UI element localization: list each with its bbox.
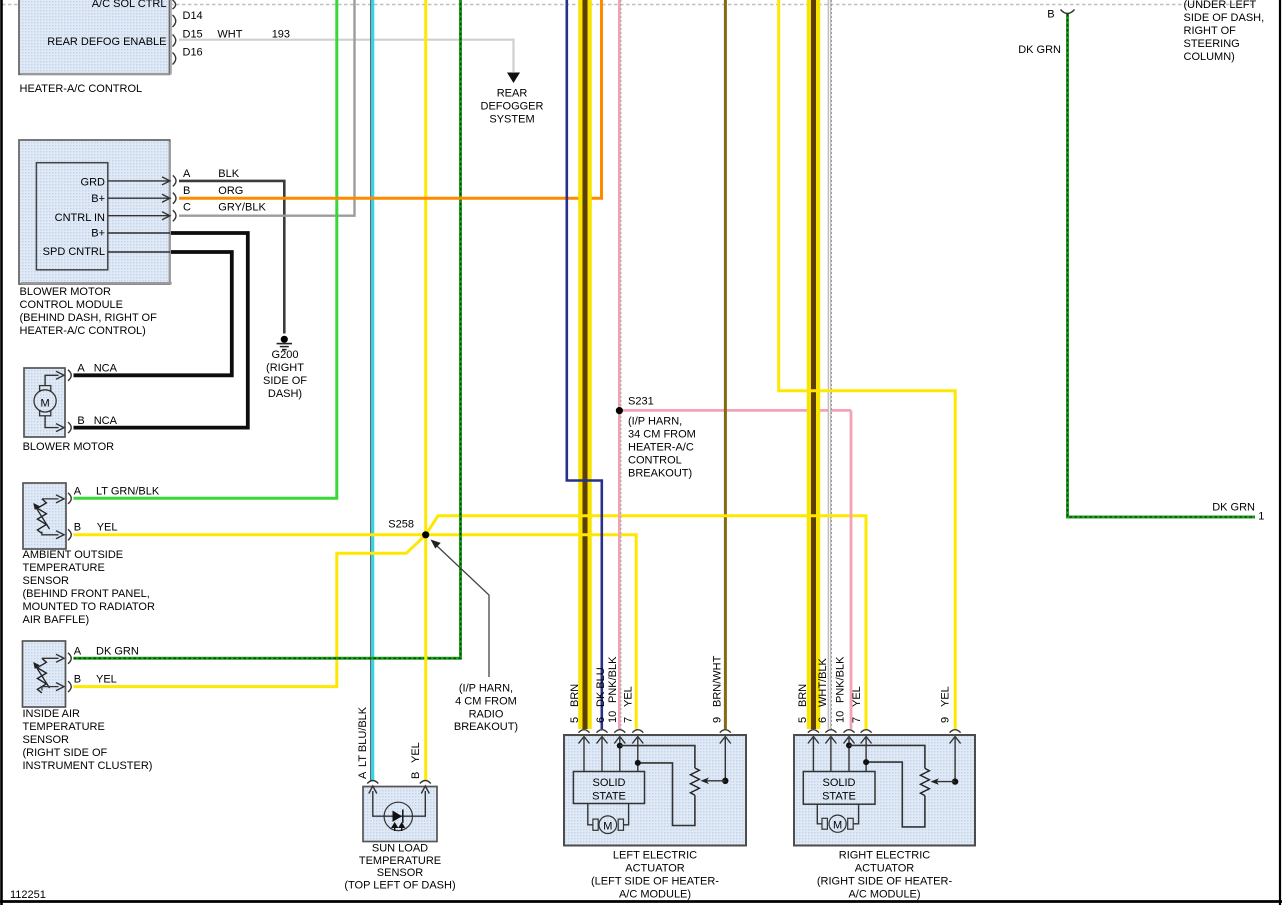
potentiometer resistor <box>690 768 699 795</box>
svg-text:SIDE OF DASH,: SIDE OF DASH, <box>1184 12 1265 24</box>
lead to pin B <box>42 687 59 691</box>
pin 6 arrow <box>601 738 603 772</box>
svg-text:DK GRN: DK GRN <box>1018 44 1061 56</box>
wire A/C SOL CTRL WHT (top, runs to right connector B) <box>2 4 1256 6</box>
svg-text:YEL: YEL <box>851 686 863 707</box>
svg-text:SENSOR: SENSOR <box>23 734 70 746</box>
svg-text:6: 6 <box>817 717 829 723</box>
thermistor symbol <box>37 658 46 693</box>
svg-text:9: 9 <box>940 717 952 723</box>
svg-text:(RIGHT SIDE OF HEATER-: (RIGHT SIDE OF HEATER- <box>817 876 953 888</box>
wire B+ thick black from module to blower motor pin B <box>74 233 248 428</box>
left actuator pin 5 arc <box>579 730 590 733</box>
svg-text:NCA: NCA <box>94 415 118 427</box>
svg-text:SOLID: SOLID <box>822 777 855 789</box>
svg-text:GRY/BLK: GRY/BLK <box>218 202 266 214</box>
svg-text:DEFOGGER: DEFOGGER <box>481 101 544 113</box>
svg-text:AMBIENT OUTSIDE: AMBIENT OUTSIDE <box>23 549 124 561</box>
pin D16 connector arc <box>173 53 176 65</box>
svg-text:LT BLU/BLK: LT BLU/BLK <box>357 706 369 767</box>
svg-text:A: A <box>74 486 82 498</box>
solid state block <box>573 772 644 804</box>
svg-text:A/C MODULE): A/C MODULE) <box>848 889 920 901</box>
svg-text:DK BLU: DK BLU <box>595 667 607 707</box>
svg-text:SENSOR: SENSOR <box>377 867 424 879</box>
inner solid-state block <box>36 163 107 270</box>
wire BLK from blower module pin A to G200 <box>179 181 284 334</box>
svg-text:STEERING: STEERING <box>1184 38 1240 50</box>
svg-text:HEATER-A/C CONTROL: HEATER-A/C CONTROL <box>20 83 143 95</box>
svg-text:BLOWER MOTOR: BLOWER MOTOR <box>20 286 112 298</box>
right electric actuator <box>794 735 975 846</box>
svg-text:COLUMN): COLUMN) <box>1184 51 1235 63</box>
wire WHT 193 from D15 to rear defogger system <box>179 40 514 72</box>
wire DK GRN right side from connector B down then right <box>1068 14 1256 517</box>
ambient pin A arc <box>68 493 71 504</box>
wire DK GRN from inside air sensor pin A, up at x=460.5 to top <box>74 0 461 658</box>
svg-text:SENSOR: SENSOR <box>23 575 70 587</box>
left electric actuator <box>564 735 746 846</box>
right actuator pin 6 arc <box>825 730 836 733</box>
junction on pin 7 <box>863 759 869 765</box>
svg-text:A/C SOL CTRL: A/C SOL CTRL <box>92 0 167 10</box>
splice S258 <box>422 531 429 538</box>
motor leads <box>817 804 822 824</box>
sun pin B arc <box>420 781 431 784</box>
left actuator pin 7 arc <box>632 730 643 733</box>
wire SPD CNTRL thick black from module to blower motor pin A <box>74 252 232 375</box>
pin 6 arrow <box>830 738 832 772</box>
svg-text:(LEFT SIDE OF HEATER-: (LEFT SIDE OF HEATER- <box>591 876 719 888</box>
svg-text:(BEHIND FRONT PANEL,: (BEHIND FRONT PANEL, <box>23 588 150 600</box>
svg-text:WHT: WHT <box>217 29 242 41</box>
motor M symbol <box>40 386 51 391</box>
pin 5 arrow <box>583 738 585 772</box>
svg-text:BREAKOUT): BREAKOUT) <box>628 468 692 480</box>
svg-text:REAR DEFOG ENABLE: REAR DEFOG ENABLE <box>47 36 166 48</box>
svg-text:YEL: YEL <box>410 742 422 763</box>
arrow B+ to pin B <box>108 197 169 199</box>
left actuator pin 6 arc <box>597 730 608 733</box>
svg-text:YEL: YEL <box>623 686 635 707</box>
svg-text:(UNDER LEFT: (UNDER LEFT <box>1184 0 1257 11</box>
motor leads <box>588 804 593 825</box>
right actuator pin 5 arc <box>808 730 819 733</box>
svg-text:DK GRN: DK GRN <box>96 646 139 658</box>
photodiode <box>384 802 412 830</box>
wire BRN (over ORG crossing) <box>578 191 592 206</box>
svg-text:112251: 112251 <box>10 889 46 901</box>
svg-text:M: M <box>41 398 50 410</box>
ambient pin B arc <box>68 529 71 540</box>
svg-text:CNTRL IN: CNTRL IN <box>55 212 105 224</box>
leader arrow from note to S258 <box>435 544 490 677</box>
wiper arrow from pin 9 <box>952 778 958 784</box>
pin 7 arrow <box>865 738 867 772</box>
svg-text:10: 10 <box>607 711 619 723</box>
wire GRY/BLK from blower module pin C, up at x=354.5 to top <box>179 0 355 216</box>
page frame <box>0 0 3 905</box>
svg-text:STATE: STATE <box>592 791 626 803</box>
wire YEL ambient sensor pin B through S258 to left actuator pin 7 <box>74 535 637 729</box>
svg-text:BRN: BRN <box>797 684 809 707</box>
svg-text:CONTROL MODULE: CONTROL MODULE <box>20 299 124 311</box>
svg-text:INSTRUMENT CLUSTER): INSTRUMENT CLUSTER) <box>23 760 153 772</box>
svg-text:RIGHT OF: RIGHT OF <box>1184 25 1237 37</box>
svg-text:BREAKOUT): BREAKOUT) <box>454 721 518 733</box>
svg-text:B: B <box>1047 9 1054 21</box>
potentiometer top lead <box>849 745 925 768</box>
svg-text:HEATER-A/C: HEATER-A/C <box>628 442 694 454</box>
svg-text:A: A <box>183 168 191 180</box>
svg-text:A: A <box>77 363 85 375</box>
svg-text:193: 193 <box>272 29 290 41</box>
svg-text:YEL: YEL <box>96 674 117 686</box>
thermistor symbol <box>37 499 46 534</box>
svg-text:SIDE OF: SIDE OF <box>263 375 307 387</box>
svg-text:B: B <box>74 522 81 534</box>
svg-text:BLOWER MOTOR: BLOWER MOTOR <box>23 441 115 453</box>
svg-text:LT GRN/BLK: LT GRN/BLK <box>96 486 160 498</box>
solid state block <box>803 772 875 805</box>
svg-text:DASH): DASH) <box>268 388 302 400</box>
wire BRN/WHT from top to left actuator pin 9 <box>724 0 727 729</box>
svg-text:SOLID: SOLID <box>592 777 625 789</box>
svg-text:WHT/BLK: WHT/BLK <box>817 657 829 707</box>
right actuator pin 9 arc <box>950 730 961 733</box>
potentiometer bottom lead to pin 7 <box>866 762 925 827</box>
svg-text:SPD CNTRL: SPD CNTRL <box>43 246 105 258</box>
pin B connector arc <box>173 193 176 204</box>
svg-text:TEMPERATURE: TEMPERATURE <box>359 855 441 867</box>
svg-text:MOUNTED TO RADIATOR: MOUNTED TO RADIATOR <box>23 601 155 613</box>
pin 10 arrow <box>848 738 850 772</box>
svg-text:CONTROL: CONTROL <box>628 455 682 467</box>
svg-text:5: 5 <box>569 717 581 723</box>
pin 7 arrow <box>637 738 639 772</box>
svg-text:(RIGHT SIDE OF: (RIGHT SIDE OF <box>23 747 108 759</box>
potentiometer top lead <box>620 746 695 768</box>
svg-text:LEFT ELECTRIC: LEFT ELECTRIC <box>613 850 697 862</box>
wire PNK/BLK branch horizontal from S231 toward right actuator <box>619 409 851 412</box>
wire PNK/BLK branch vertical to right actuator pin 10 <box>850 410 853 729</box>
svg-text:(TOP LEFT OF DASH): (TOP LEFT OF DASH) <box>344 879 455 891</box>
svg-text:INSIDE AIR: INSIDE AIR <box>23 708 81 720</box>
junction on pin 10 <box>846 742 852 748</box>
svg-text:(RIGHT: (RIGHT <box>266 362 304 374</box>
svg-text:G200: G200 <box>272 349 299 361</box>
potentiometer resistor <box>920 768 929 795</box>
svg-text:SUN LOAD: SUN LOAD <box>372 843 428 855</box>
wire YEL sun load sensor pin B vertical from top through S258 <box>424 0 427 782</box>
rear defogger system arrow <box>507 73 520 84</box>
svg-text:GRD: GRD <box>81 177 106 189</box>
lead to pin A <box>42 657 59 659</box>
svg-text:DK GRN: DK GRN <box>1212 502 1255 514</box>
junction on pin 7 <box>635 760 641 766</box>
pin D13 connector arc <box>173 0 176 9</box>
heater-A/C control (box, cut off at top) <box>19 0 172 75</box>
arrow GRD to pin A <box>108 180 169 182</box>
svg-text:B: B <box>410 772 422 779</box>
motor M symbol <box>822 818 827 829</box>
junction on pin 10 <box>617 743 623 749</box>
motor lead to pin A <box>45 375 58 385</box>
svg-text:ORG: ORG <box>218 185 243 197</box>
pin D14 connector arc <box>173 15 176 27</box>
svg-text:D15: D15 <box>183 29 203 41</box>
motor M symbol <box>593 819 598 830</box>
sun load temperature sensor <box>363 786 437 842</box>
pin C connector arc <box>173 210 176 221</box>
wire BRN thick from top to left actuator pin 5 <box>578 0 592 729</box>
svg-text:SYSTEM: SYSTEM <box>489 114 534 126</box>
wire YEL from S258 to right actuator pin 7 <box>426 516 866 729</box>
svg-text:C: C <box>183 202 191 214</box>
wire LT BLU/BLK from top to sun load sensor pin A <box>370 0 372 782</box>
wire BRN thick from top to right actuator pin 5 <box>807 0 821 729</box>
svg-text:D16: D16 <box>183 47 203 59</box>
svg-text:ACTUATOR: ACTUATOR <box>855 863 915 875</box>
wire B+ lead inside module <box>108 232 170 234</box>
svg-text:PNK/BLK: PNK/BLK <box>607 656 619 703</box>
svg-text:A: A <box>357 771 369 779</box>
inside air pin A arc <box>68 653 71 664</box>
svg-text:HEATER-A/C CONTROL): HEATER-A/C CONTROL) <box>20 325 146 337</box>
svg-text:9: 9 <box>712 717 724 723</box>
sun pin A arc <box>367 781 378 784</box>
svg-text:TEMPERATURE: TEMPERATURE <box>23 562 105 574</box>
left actuator pin 9 arc <box>720 730 731 733</box>
lead to pin B <box>42 532 59 535</box>
svg-text:D14: D14 <box>183 10 203 22</box>
left actuator pin 10 arc <box>614 730 625 733</box>
ground G200 <box>263 336 307 400</box>
motor lead to pin B <box>45 416 58 428</box>
svg-text:1: 1 <box>1258 511 1264 523</box>
svg-text:AIR BAFFLE): AIR BAFFLE) <box>23 614 90 626</box>
right actuator pin 10 arc <box>844 730 855 733</box>
svg-text:M: M <box>603 820 612 832</box>
wire SPD CNTRL lead inside module <box>108 251 170 253</box>
svg-text:B+: B+ <box>91 228 105 240</box>
ambient outside temperature sensor <box>23 483 66 549</box>
wire YEL from top to right actuator pin 9 <box>779 0 956 729</box>
svg-text:YEL: YEL <box>940 686 952 707</box>
svg-text:7: 7 <box>851 717 863 723</box>
svg-text:B: B <box>183 185 190 197</box>
pin D15 connector arc <box>173 35 176 47</box>
lead to pin A <box>42 498 59 500</box>
wire PNK/BLK from top through S231 to left actuator pin 10 <box>618 0 621 729</box>
svg-text:TEMPERATURE: TEMPERATURE <box>23 721 105 733</box>
svg-text:(I/P HARN,: (I/P HARN, <box>628 416 682 428</box>
svg-text:34 CM FROM: 34 CM FROM <box>628 429 696 441</box>
svg-text:NCA: NCA <box>94 363 118 375</box>
svg-text:5: 5 <box>797 717 809 723</box>
svg-text:6: 6 <box>595 717 607 723</box>
svg-text:B: B <box>77 415 84 427</box>
svg-text:BRN: BRN <box>569 684 581 707</box>
pin A connector arc <box>173 175 176 186</box>
inside air pin B arc <box>68 681 71 692</box>
blower motor control module <box>19 140 172 284</box>
blower motor pin A arc <box>68 370 71 381</box>
svg-text:YEL: YEL <box>97 522 118 534</box>
svg-text:REAR: REAR <box>497 88 528 100</box>
potentiometer bottom lead to pin 7 <box>638 763 695 826</box>
svg-text:B: B <box>74 674 81 686</box>
arrow CNTRL IN to pin C <box>108 215 169 217</box>
svg-text:STATE: STATE <box>822 791 856 803</box>
svg-text:10: 10 <box>835 711 847 723</box>
svg-text:A/C MODULE): A/C MODULE) <box>619 889 691 901</box>
svg-text:(I/P HARN,: (I/P HARN, <box>459 683 513 695</box>
wiper arrow from pin 9 <box>722 778 728 784</box>
pin 5 arrow <box>812 738 814 772</box>
svg-text:RIGHT ELECTRIC: RIGHT ELECTRIC <box>839 850 931 862</box>
svg-text:RADIO: RADIO <box>469 709 504 721</box>
wire WHT/BLK from top to right actuator pin 6 <box>828 0 832 729</box>
pin 9 arrow <box>954 738 956 782</box>
pin 10 arrow <box>619 738 621 772</box>
blower motor pin B arc <box>68 422 71 433</box>
svg-text:B+: B+ <box>91 193 105 205</box>
splice S231 <box>616 407 623 414</box>
svg-text:A: A <box>74 646 82 658</box>
wire LT GRN/BLK from ambient sensor pin A, up at x=336.8 to top <box>74 0 337 498</box>
svg-text:4 CM FROM: 4 CM FROM <box>455 696 517 708</box>
svg-text:M: M <box>833 819 842 831</box>
svg-text:7: 7 <box>623 717 635 723</box>
svg-text:S258: S258 <box>388 519 414 531</box>
wire DK BLU from top to left actuator pin 6 <box>567 0 602 729</box>
svg-text:BLK: BLK <box>218 168 239 180</box>
svg-text:ACTUATOR: ACTUATOR <box>625 863 685 875</box>
pin 9 arrow <box>724 738 726 781</box>
svg-text:(BEHIND DASH, RIGHT OF: (BEHIND DASH, RIGHT OF <box>20 312 158 324</box>
inside air temperature sensor <box>23 641 66 707</box>
wire YEL inside air sensor pin B to S258 <box>74 535 426 687</box>
connector B arc <box>1061 10 1075 14</box>
svg-text:PNK/BLK: PNK/BLK <box>835 656 847 703</box>
blower motor <box>24 368 65 437</box>
svg-text:BRN/WHT: BRN/WHT <box>712 655 724 707</box>
internal wire <box>373 791 426 816</box>
right actuator pin 7 arc <box>861 730 872 733</box>
wire ORG from blower module pin B, up at x=601.5 to top <box>179 0 602 198</box>
svg-text:S231: S231 <box>628 396 654 408</box>
